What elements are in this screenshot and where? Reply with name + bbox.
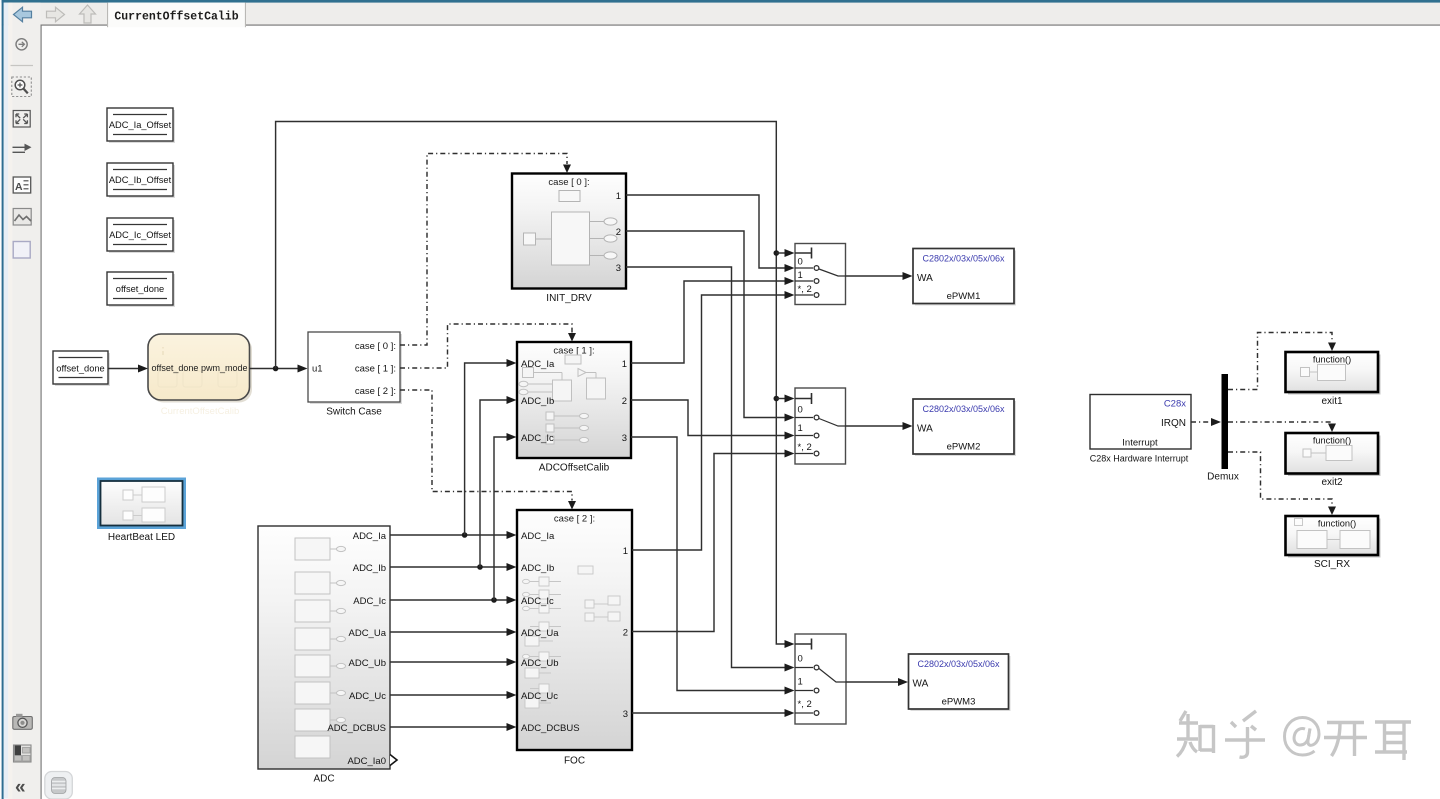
svg-text:ADC_Ic: ADC_Ic — [353, 596, 386, 607]
control wire case2 to FOC action port (dash-dot) — [400, 390, 576, 510]
svg-text:ADC_Ib: ADC_Ib — [521, 563, 554, 574]
svg-text:ADC_Ia: ADC_Ia — [521, 531, 555, 542]
svg-text:SCI_RX: SCI_RX — [1314, 559, 1350, 570]
svg-text:CurrentOffsetCalib: CurrentOffsetCalib — [114, 11, 238, 24]
wire chart output to switch case u1 — [250, 365, 308, 373]
C28x Hardware Interrupt block — [1090, 395, 1191, 464]
svg-text:IRQN: IRQN — [1161, 418, 1186, 429]
wire ADCOffsetCalib out2 to SW2 in1 — [631, 400, 795, 440]
svg-text:3: 3 — [616, 263, 621, 274]
svg-text:FOC: FOC — [564, 756, 585, 767]
data store memory ADC_Ib_Offset — [107, 163, 175, 198]
switch case block — [308, 332, 402, 418]
function-call subsystem exit1 — [1286, 352, 1381, 407]
function-call wire Demux to exit1 (dash-dot) — [1228, 333, 1336, 390]
data store memory offset_done — [107, 272, 175, 307]
sidebar icon: fit to view — [13, 111, 30, 128]
svg-text:ADC_Ic_Offset: ADC_Ic_Offset — [109, 230, 171, 240]
svg-text:ADC_Ub: ADC_Ub — [349, 658, 387, 669]
svg-text:exit1: exit1 — [1321, 396, 1343, 407]
svg-text:ADC_Ia_Offset: ADC_Ia_Offset — [109, 120, 172, 130]
demux bar — [1207, 374, 1239, 483]
svg-text:u1: u1 — [312, 364, 323, 375]
svg-text:case [ 0 ]:: case [ 0 ]: — [548, 177, 589, 188]
sidebar icon: zoom to region (magnifier in dashed box) — [12, 77, 32, 97]
wire FOC out2 to SW2 in2 — [632, 450, 795, 632]
window top blue border — [0, 0, 1440, 3]
svg-text:ADC_Ia0: ADC_Ia0 — [347, 756, 386, 767]
stateflow chart pwm_mode — [148, 334, 252, 417]
watermark glyph zhi (knowledge) — [1177, 711, 1214, 757]
wire ADC_Ub to FOC — [390, 658, 517, 666]
ADC_Ia0 unconnected output port chevron — [390, 755, 397, 766]
multiport switch SW1 — [795, 244, 846, 305]
junction node at chart output branch — [273, 366, 279, 372]
svg-text:offset_done: offset_done — [116, 284, 164, 294]
svg-text:2: 2 — [616, 227, 621, 238]
data store read offset_done — [53, 351, 110, 386]
svg-text:ADC_Uc: ADC_Uc — [349, 691, 386, 702]
wire ADC_DCBUS to FOC — [390, 723, 517, 731]
svg-text:1: 1 — [623, 546, 628, 557]
svg-text:1: 1 — [798, 677, 803, 688]
wire FOC out3 to SW3 in2 — [632, 709, 795, 717]
sidebar icon: viewmarks — [14, 745, 32, 762]
svg-text:case [ 1 ]:: case [ 1 ]: — [355, 364, 396, 375]
svg-text:Interrupt: Interrupt — [1122, 438, 1158, 449]
wire ADC_Ic branch to ADCOffsetCalib — [494, 433, 517, 600]
toolbar forward arrow (disabled) — [47, 7, 65, 22]
svg-text:ADC_Ic: ADC_Ic — [521, 596, 554, 607]
svg-text:Demux: Demux — [1207, 472, 1239, 483]
junction node ADC_Ic branch — [491, 597, 497, 603]
wire SW1 output to ePWM1 WA — [846, 272, 913, 280]
svg-text:ADC_Ib_Offset: ADC_Ib_Offset — [109, 175, 172, 185]
svg-text:case [ 0 ]:: case [ 0 ]: — [355, 341, 396, 352]
multiport switch SW2 — [795, 388, 846, 464]
wire ADC_Ib branch to ADCOffsetCalib — [480, 396, 517, 567]
wire pwm_mode control trunk up and across — [276, 122, 785, 645]
bottom-left data button — [45, 772, 73, 799]
svg-text:2: 2 — [623, 628, 628, 639]
toolbar up arrow (disabled) — [80, 5, 96, 23]
svg-text:A: A — [15, 181, 23, 193]
svg-text:*, 2: *, 2 — [798, 699, 812, 710]
svg-text:ADC_Uc: ADC_Uc — [521, 691, 558, 702]
watermark glyph hu — [1225, 711, 1265, 757]
window left blue border — [0, 0, 2, 799]
svg-text:offset_done: offset_done — [152, 363, 199, 373]
ePWM2 block — [913, 399, 1016, 456]
wire ADC_Ib to FOC — [390, 563, 517, 571]
watermark at-sign — [1285, 718, 1320, 756]
subsystem ADC — [258, 526, 397, 785]
subsystem INIT_DRV — [512, 174, 626, 305]
function-call wire IRQN to Demux (dash-dot) — [1191, 418, 1221, 426]
ePWM1 block — [913, 249, 1016, 306]
toolbar background — [0, 0, 1440, 25]
wire INIT_DRV out3 to SW3 in0 — [626, 267, 795, 672]
svg-text:function(): function() — [1313, 436, 1351, 446]
svg-text:case [ 2 ]:: case [ 2 ]: — [355, 386, 396, 397]
wire FOC out1 to SW1 in2 — [632, 291, 795, 550]
svg-text:HeartBeat LED: HeartBeat LED — [108, 532, 175, 543]
wire ADCOffsetCalib out3 to SW3 in1 — [631, 437, 795, 695]
svg-text:CurrentOffsetCalib: CurrentOffsetCalib — [161, 406, 240, 417]
wire INIT_DRV out1 to SW1 in0 — [626, 195, 795, 272]
svg-text:ADC_Ic: ADC_Ic — [521, 433, 554, 444]
sidebar right border — [41, 25, 42, 799]
svg-text:INIT_DRV: INIT_DRV — [546, 293, 592, 304]
data store memory ADC_Ia_Offset — [107, 108, 175, 143]
svg-text:pwm_mode: pwm_mode — [201, 363, 248, 373]
data store memory ADC_Ic_Offset — [107, 218, 175, 253]
svg-text:C28x Hardware Interrupt: C28x Hardware Interrupt — [1090, 454, 1189, 464]
svg-text:function(): function() — [1318, 519, 1356, 529]
svg-text:0: 0 — [798, 654, 803, 665]
wire ADC_Ua to FOC — [390, 628, 517, 636]
subsystem FOC — [517, 510, 632, 767]
svg-text:C2802x/03x/05x/06x: C2802x/03x/05x/06x — [922, 254, 1005, 264]
svg-text:WA: WA — [917, 273, 933, 284]
svg-text:*, 2: *, 2 — [798, 284, 812, 295]
svg-text:function(): function() — [1313, 355, 1351, 365]
svg-text:0: 0 — [798, 405, 803, 416]
wire control branch to SW2 — [776, 395, 794, 403]
svg-text:2: 2 — [622, 396, 627, 407]
svg-text:ADC_DCBUS: ADC_DCBUS — [327, 723, 386, 734]
svg-text:ADC_Ib: ADC_Ib — [521, 396, 554, 407]
svg-text:ePWM2: ePWM2 — [947, 442, 981, 453]
wire INIT_DRV out2 to SW2 in0 — [626, 231, 795, 422]
multiport switch SW3 — [795, 634, 846, 724]
control wire case1 to ADCOffsetCalib action port (dash-dot) — [400, 324, 576, 368]
svg-text:C2802x/03x/05x/06x: C2802x/03x/05x/06x — [922, 404, 1005, 414]
sidebar icon: annotation A — [13, 177, 31, 193]
svg-text:ADC_Ua: ADC_Ua — [521, 628, 559, 639]
sidebar icon: hide browser circle-arrow — [16, 39, 27, 50]
junction node control branch SW1 — [774, 250, 780, 256]
function-call subsystem SCI_RX — [1286, 516, 1381, 570]
sidebar icon: signal lines double arrow — [13, 144, 32, 153]
canvas top border — [41, 25, 1440, 26]
svg-text:1: 1 — [798, 423, 803, 434]
wire ADC_Ia to FOC — [390, 531, 517, 539]
svg-text:case [ 2 ]:: case [ 2 ]: — [554, 514, 595, 525]
svg-text:ADC_DCBUS: ADC_DCBUS — [521, 723, 580, 734]
svg-text:1: 1 — [622, 359, 627, 370]
sidebar icon: light square — [13, 242, 30, 259]
wire ADC_Ia branch to ADCOffsetCalib — [465, 359, 517, 535]
svg-text:C28x: C28x — [1164, 399, 1186, 410]
wire control branch to SW1 — [776, 249, 794, 257]
function-call wire Demux to SCI_RX (dash-dot) — [1228, 452, 1336, 515]
wire ADC_Ic to FOC — [390, 596, 517, 604]
wire ADC_Uc to FOC — [390, 691, 517, 699]
arrow into SW3 control — [785, 640, 795, 648]
svg-text:*, 2: *, 2 — [798, 442, 812, 453]
wire ADCOffsetCalib out1 to SW1 in1 — [631, 277, 795, 363]
junction node ADC_Ia branch — [462, 532, 468, 538]
svg-text:ADC_Ib: ADC_Ib — [353, 563, 386, 574]
svg-text:ePWM1: ePWM1 — [947, 291, 981, 302]
function-call wire Demux to exit2 (dash-dot) — [1228, 422, 1336, 432]
breadcrumb tab CurrentOffsetCalib — [107, 3, 246, 28]
svg-text:ADC_Ia: ADC_Ia — [353, 531, 387, 542]
svg-text:3: 3 — [623, 709, 628, 720]
svg-text:C2802x/03x/05x/06x: C2802x/03x/05x/06x — [917, 659, 1000, 669]
svg-text:WA: WA — [917, 424, 933, 435]
svg-text:ePWM3: ePWM3 — [942, 697, 976, 708]
svg-text:WA: WA — [913, 679, 929, 690]
svg-text:ADC_Ua: ADC_Ua — [349, 628, 387, 639]
control wire case0 to INIT_DRV action port (dash-dot) — [400, 154, 571, 346]
function-call subsystem exit2 — [1286, 433, 1381, 488]
svg-text:3: 3 — [622, 433, 627, 444]
watermark glyph kai — [1324, 723, 1367, 757]
wire offset_done read to chart — [108, 365, 148, 373]
watermark glyph er — [1375, 722, 1411, 760]
subsystem ADCOffsetCalib — [517, 342, 631, 474]
sidebar separator — [11, 65, 34, 67]
svg-text:Switch Case: Switch Case — [326, 407, 382, 418]
svg-text:ADC_Ub: ADC_Ub — [521, 658, 559, 669]
svg-text:«: « — [15, 777, 26, 798]
svg-text:exit2: exit2 — [1321, 477, 1343, 488]
wire SW2 output to ePWM2 WA — [846, 422, 913, 430]
junction node ADC_Ib branch — [477, 564, 483, 570]
junction node control branch SW2 — [774, 396, 780, 402]
sidebar icon: camera — [13, 714, 33, 730]
svg-text:offset_done: offset_done — [56, 364, 104, 374]
sidebar background — [8, 3, 40, 799]
svg-text:ADCOffsetCalib: ADCOffsetCalib — [539, 463, 610, 474]
svg-text:ADC_Ia: ADC_Ia — [521, 359, 555, 370]
ePWM3 block — [909, 654, 1011, 711]
HeartBeat LED subsystem (selected) — [97, 478, 186, 544]
sidebar icon: image — [13, 209, 31, 226]
svg-text:1: 1 — [616, 191, 621, 202]
svg-text:1: 1 — [798, 270, 803, 281]
svg-text:0: 0 — [798, 257, 803, 268]
toolbar back arrow (blue, enabled) — [14, 7, 32, 22]
wire SW3 output to ePWM3 WA — [846, 678, 908, 686]
svg-text:ADC: ADC — [313, 774, 334, 785]
